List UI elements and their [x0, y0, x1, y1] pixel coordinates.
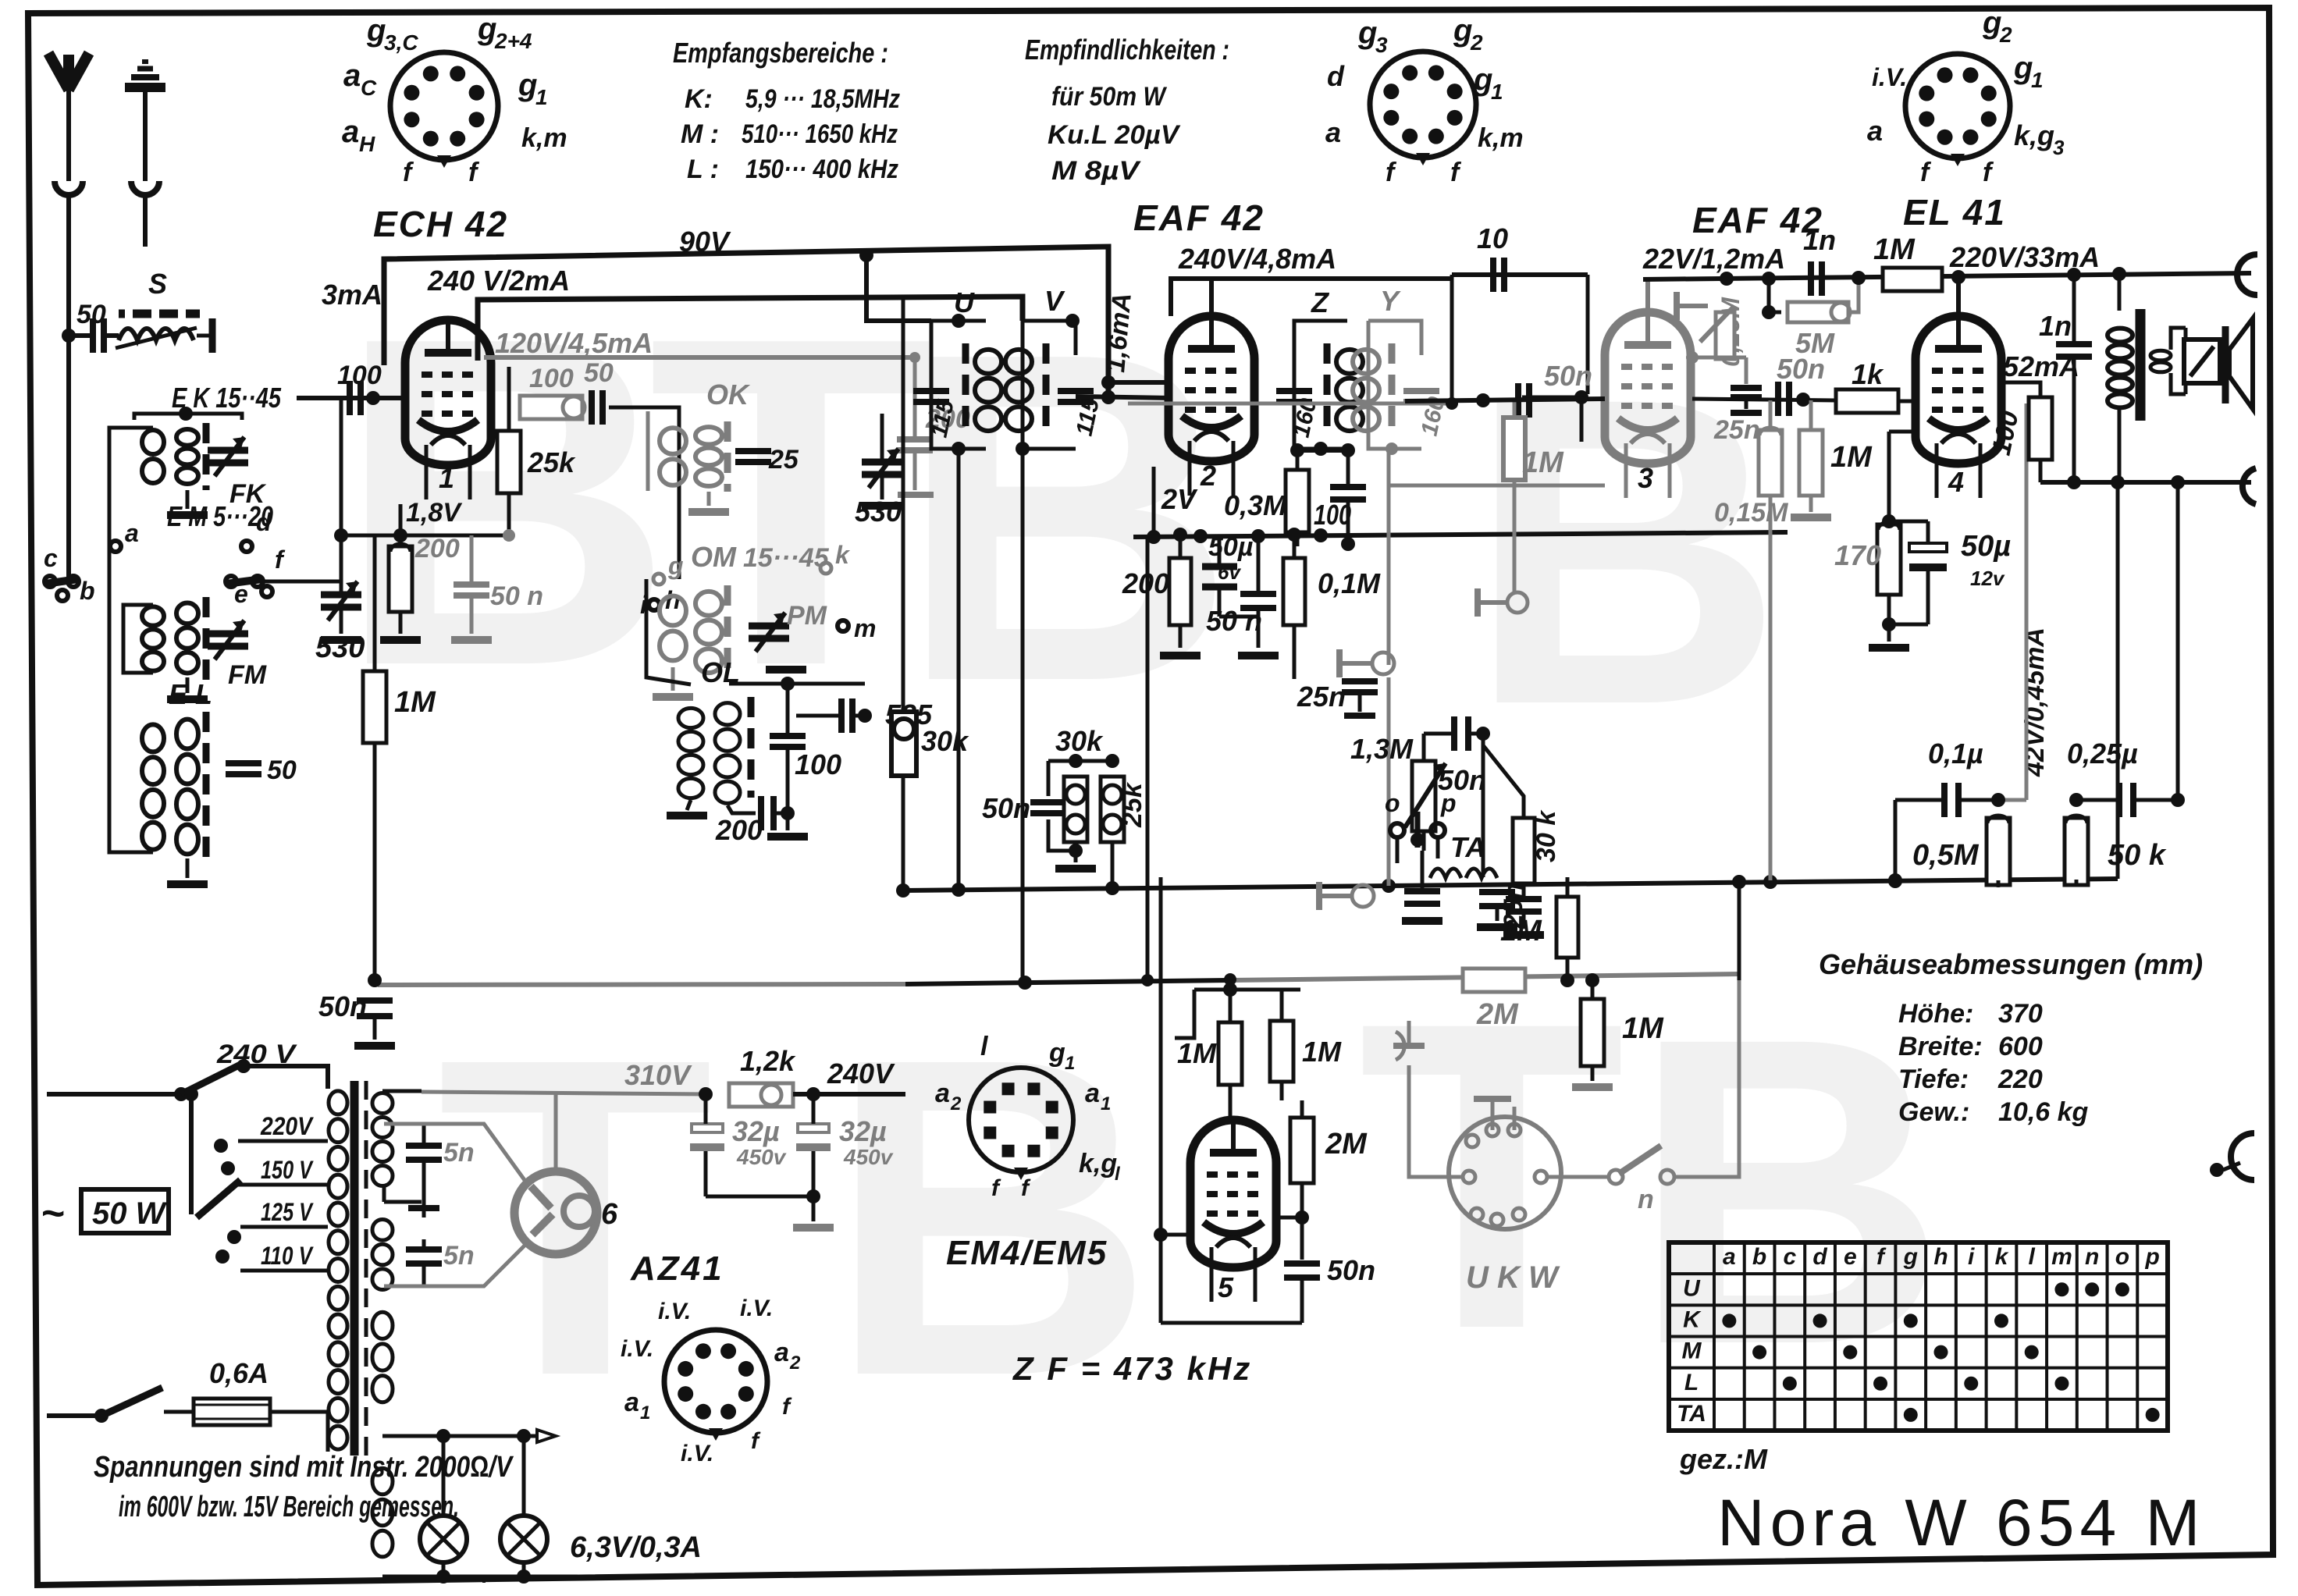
wire cathode EL: [1869, 432, 1916, 648]
wire 530 left: [321, 398, 361, 640]
label 50n near 5M: [1777, 353, 1825, 385]
svg-text:5n: 5n: [443, 1241, 475, 1271]
svg-text:h: h: [1933, 1244, 1948, 1270]
label ZF: [1012, 1350, 1252, 1387]
socket EAF42 pin labels: [1325, 13, 1524, 187]
lamp 2: [500, 1436, 547, 1576]
svg-text:c: c: [44, 544, 58, 572]
label EAF42 second: [1692, 200, 1823, 240]
svg-text:30 k: 30 k: [1531, 809, 1561, 862]
resistor 2M bridge: [1463, 969, 1525, 1031]
capacitor 50n cathode gray: [454, 535, 543, 611]
antenna: [48, 53, 89, 181]
svg-text:Gew.:: Gew.:: [1898, 1097, 1969, 1127]
coil box OM: [653, 585, 827, 697]
label 2V: [1161, 483, 1198, 515]
svg-text:d: d: [1812, 1244, 1827, 1270]
capacitor 100 Z: [1314, 487, 1366, 531]
switch n: [1547, 1146, 1674, 1214]
wire OL top: [729, 670, 865, 691]
svg-text:3,C: 3,C: [384, 30, 418, 55]
svg-text:Höhe:: Höhe:: [1898, 999, 1973, 1029]
label S: [148, 268, 167, 300]
svg-text:2: 2: [1999, 23, 2012, 47]
svg-text:100: 100: [529, 364, 574, 393]
gray AVC bus: [378, 973, 1739, 990]
socket EL41 pin labels: [1867, 5, 2065, 187]
wire gray Y down: [1389, 449, 1605, 665]
svg-text:o: o: [1385, 789, 1400, 817]
svg-text:a: a: [125, 519, 139, 547]
speaker transformer: [2108, 267, 2186, 482]
wire 0,25u riser: [2171, 475, 2185, 800]
label 50: [584, 358, 614, 388]
socket AZ41 pin labels: [621, 1296, 801, 1466]
svg-text:gez.:M: gez.:M: [1679, 1443, 1768, 1475]
gray trimmer TA1: [1339, 649, 1394, 677]
svg-text:Tiefe:: Tiefe:: [1898, 1065, 1969, 1094]
svg-text:3mA: 3mA: [322, 279, 382, 311]
variable capacitor 530 left: [315, 581, 365, 664]
svg-text:0,1M: 0,1M: [1318, 567, 1381, 599]
heater coil: [372, 1312, 393, 1557]
fuse 0,6A: [164, 1357, 328, 1425]
label 42V/0,45mA: [2020, 627, 2050, 777]
svg-text:50µ: 50µ: [1208, 532, 1253, 562]
svg-text:e: e: [234, 580, 248, 608]
capacitor 50: [592, 390, 603, 425]
svg-text:e: e: [1844, 1244, 1857, 1270]
svg-text:240V/4,8mA: 240V/4,8mA: [1178, 243, 1336, 275]
coil box EM: [142, 597, 267, 699]
svg-text:g: g: [1903, 1244, 1918, 1270]
label OM 15-45: [691, 541, 830, 573]
capacitor 1n snubber: [2039, 268, 2092, 482]
coil S: [116, 328, 197, 348]
wire o down: [1397, 839, 1438, 863]
socket ECH42 pin labels: [342, 12, 567, 187]
svg-text:H: H: [359, 132, 375, 156]
wire 120V gray rail: [484, 352, 920, 363]
label 310V: [624, 1059, 692, 1091]
resistor 1k: [1836, 358, 1917, 413]
label EM4/EM5: [946, 1234, 1108, 1272]
svg-text:g: g: [667, 552, 684, 580]
svg-text:p: p: [2144, 1244, 2159, 1270]
wire EAF2 anode: [1645, 279, 1650, 312]
text Tiefe: [1898, 1065, 2043, 1094]
label EM 5-20: [167, 500, 273, 532]
svg-text:g: g: [1982, 5, 2001, 40]
wire em top loop: [1175, 979, 1300, 1038]
svg-text:50n: 50n: [982, 792, 1030, 824]
output jack curl top: [2237, 254, 2257, 295]
svg-text:i.V.: i.V.: [740, 1296, 773, 1321]
svg-text:a: a: [774, 1338, 789, 1367]
resistor 1M em left: [1177, 990, 1242, 1124]
resistor 1M osc: [363, 671, 436, 743]
svg-text:Ku.L 20µV: Ku.L 20µV: [1048, 120, 1181, 150]
switch o p: [1385, 789, 1457, 848]
capacitor 0,25u: [2067, 738, 2185, 817]
svg-text:310V: 310V: [624, 1059, 692, 1091]
svg-text:200: 200: [414, 534, 460, 563]
svg-text:1n: 1n: [2039, 310, 2072, 342]
svg-text:k,m: k,m: [521, 123, 567, 153]
label 1 (ECH42 pin): [439, 462, 454, 494]
capacitor 50n grid: [1778, 382, 1789, 416]
svg-text:12v: 12v: [1970, 567, 2005, 590]
svg-text:3: 3: [1638, 462, 1653, 494]
switch S dashes: [119, 310, 200, 318]
label 90V: [679, 226, 731, 258]
transformer core: [354, 1081, 366, 1456]
resistor 1M coupling: [1503, 400, 1564, 592]
label 4 (EL41 pin): [1948, 466, 1964, 498]
small caps mid: [1402, 851, 1442, 921]
contact f: [261, 546, 286, 597]
wire 90V rail: [384, 247, 1108, 398]
svg-text:o: o: [2115, 1244, 2129, 1270]
svg-text:2+4: 2+4: [494, 29, 532, 53]
svg-text:530: 530: [855, 496, 902, 528]
svg-text:S: S: [148, 268, 167, 300]
svg-text:c: c: [1783, 1244, 1796, 1270]
label 220V: [260, 1112, 314, 1140]
switch row b: [44, 576, 95, 605]
wire 5n chain: [384, 1124, 424, 1286]
svg-text:100: 100: [337, 361, 382, 390]
resistor 30k 25k pair: [982, 725, 1147, 890]
svg-text:M: M: [1682, 1338, 1702, 1364]
IF can Y: [1353, 285, 1450, 455]
svg-text:0,3M: 0,3M: [1224, 489, 1287, 521]
svg-text:a: a: [624, 1388, 639, 1417]
text Gewicht: [1898, 1097, 2089, 1127]
svg-text:i.V.: i.V.: [658, 1299, 691, 1324]
wire anode rail EAF42: [1171, 279, 1452, 316]
label 52mA: [2003, 350, 2079, 382]
svg-text:1,3M: 1,3M: [1350, 733, 1414, 765]
wire S line: [62, 329, 119, 343]
svg-text:0,15M: 0,15M: [1714, 498, 1788, 528]
svg-text:1: 1: [1101, 1093, 1111, 1114]
variable capacitor 530 right: [855, 449, 902, 528]
output jack curl bottom: [2210, 1133, 2254, 1180]
svg-text:1M: 1M: [1522, 446, 1564, 479]
wire 32u bottom: [706, 1189, 834, 1228]
svg-text:1: 1: [535, 85, 548, 109]
wire grid ECH42: [297, 396, 406, 400]
tube V2 EAF42: [1169, 316, 1254, 496]
svg-text:Z F = 473 kHz: Z F = 473 kHz: [1012, 1350, 1252, 1387]
capacitor 100 OL: [770, 684, 841, 808]
label 110V: [261, 1242, 314, 1270]
svg-text:32µ: 32µ: [839, 1115, 887, 1147]
svg-text:Nora W 654 M: Nora W 654 M: [1717, 1486, 2206, 1559]
wire gray g2: [1692, 357, 1746, 384]
svg-text:50: 50: [584, 358, 614, 388]
svg-text:k,m: k,m: [1478, 123, 1524, 153]
svg-text:a: a: [1325, 116, 1341, 148]
resistor 50k: [2065, 793, 2167, 885]
svg-text:1M: 1M: [1177, 1037, 1217, 1069]
resistor 30k lamp: [891, 297, 969, 890]
resistor 100 screen: [1987, 397, 2052, 460]
svg-text:a: a: [1085, 1079, 1100, 1108]
svg-text:TA: TA: [1677, 1401, 1706, 1427]
text Hoehe: [1898, 999, 2043, 1029]
speaker: [2184, 318, 2253, 409]
wire 1,6mA vertical: [1101, 375, 1171, 389]
wire 2V rail: [1133, 528, 1788, 544]
wire 1M osc: [368, 535, 382, 987]
coil box OL: [646, 579, 756, 816]
capacitor 25n TA: [1297, 681, 1378, 716]
text Spannungen: [94, 1451, 514, 1523]
cathode resistor 170: [1834, 522, 1901, 595]
svg-text:k,g: k,g: [2014, 119, 2054, 151]
label AZ41: [630, 1249, 724, 1288]
wire grid EL41: [1522, 390, 1836, 442]
resistor 200 cathode: [389, 534, 460, 612]
wire cathode: [399, 504, 403, 634]
gray trimmer det: [1478, 588, 1528, 617]
resistor 2M em: [1290, 1100, 1368, 1225]
svg-text:1: 1: [2031, 68, 2044, 92]
contacts g h i k m: [640, 541, 876, 642]
wire n to bus: [1674, 980, 1739, 1177]
svg-text:E M 5···20: E M 5···20: [167, 500, 273, 532]
coil box EL: [142, 712, 297, 884]
svg-text:a: a: [1867, 115, 1883, 147]
wire 0,3M: [1290, 443, 1355, 546]
svg-text:0,6A: 0,6A: [209, 1357, 269, 1389]
capacitor 50n EAF: [1206, 535, 1279, 656]
wire em bottom: [1161, 1321, 1302, 1325]
label 3 (EAF42 pin): [1638, 462, 1653, 494]
capacitor 50mu6v: [1202, 532, 1258, 617]
socket UKW: [1449, 1117, 1561, 1229]
text Empfangsbereiche: [673, 37, 900, 184]
label EL41: [1903, 192, 2006, 233]
wire em right: [1284, 1217, 1375, 1323]
svg-text:M :: M :: [681, 119, 719, 149]
wire gray Y to EAF2: [1128, 397, 1458, 410]
svg-text:m: m: [854, 614, 876, 642]
svg-text:1M: 1M: [394, 686, 436, 719]
svg-text:U: U: [954, 286, 975, 318]
svg-text:g: g: [1473, 62, 1492, 97]
svg-text:0,25µ: 0,25µ: [2067, 738, 2138, 770]
socket EM labels: [935, 1032, 1121, 1201]
potentiometer 1,3M: [1405, 734, 1446, 851]
label 1,6mA: [1101, 292, 1137, 374]
resistor 5M: [1762, 279, 1859, 359]
coil box EK: [134, 407, 267, 515]
svg-text:Gehäuseabmessungen (mm): Gehäuseabmessungen (mm): [1819, 948, 2203, 980]
capacitor 25n chassis: [1713, 388, 1762, 445]
svg-text:g: g: [2013, 51, 2033, 85]
selector stem: [184, 1087, 198, 1214]
resistor 1M bridge2: [1572, 973, 1664, 1087]
wire output bottom bus: [2040, 475, 2251, 489]
trimmer 0,25M: [1677, 292, 1734, 359]
wire 525: [796, 709, 872, 723]
capacitor 200 OL bottom: [715, 796, 808, 846]
label OL: [701, 656, 740, 688]
svg-text:k,g: k,g: [1079, 1149, 1117, 1178]
wire 50n gray: [451, 596, 492, 640]
svg-text:5n: 5n: [443, 1138, 475, 1168]
label 3mA: [322, 279, 382, 311]
earth plug cup: [131, 181, 159, 247]
gray trimmer TA3: [1319, 882, 1374, 910]
svg-text:g: g: [1357, 16, 1377, 50]
svg-text:50n: 50n: [1544, 360, 1592, 392]
wire 90V drop to U: [866, 255, 931, 321]
resistor 0,5M: [1912, 800, 2010, 885]
svg-text:n: n: [1638, 1185, 1654, 1214]
wire screen bot: [2039, 460, 2043, 482]
capacitor 50n bottom: [354, 980, 395, 1046]
wire to EAF42 grid: [1076, 390, 1171, 404]
svg-text:1,8V: 1,8V: [406, 498, 463, 528]
resistor 30k TA: [1483, 745, 1561, 935]
label 150V: [261, 1156, 314, 1184]
svg-text:l: l: [2029, 1244, 2036, 1270]
wire antenna to switch: [66, 336, 71, 581]
svg-text:370: 370: [1998, 999, 2043, 1029]
wire Z bottom: [1341, 450, 1355, 551]
secondary mid tap: [384, 1186, 422, 1202]
svg-text:L :: L :: [687, 155, 719, 184]
mid tap T: [408, 1194, 439, 1217]
svg-text:4: 4: [1948, 466, 1964, 498]
junction 1,8V: [334, 528, 515, 542]
svg-text:k: k: [1995, 1244, 2009, 1270]
svg-text:30k: 30k: [1055, 725, 1104, 757]
wire 530 right: [862, 414, 902, 506]
IF can U: [913, 286, 1001, 456]
svg-text:10,6 kg: 10,6 kg: [1998, 1097, 2089, 1127]
svg-text:1: 1: [439, 462, 454, 494]
label 22V/1,2mA: [1642, 243, 1785, 275]
title Nora W 654 M: [1717, 1486, 2206, 1559]
text Breite: [1898, 1032, 2043, 1061]
wire 125V tap: [240, 1225, 328, 1229]
svg-text:EAF 42: EAF 42: [1133, 197, 1265, 238]
antenna plug cup: [55, 181, 83, 228]
label ECH42: [373, 204, 508, 244]
wire gray TA down: [1387, 677, 1391, 886]
resistor 25k: [497, 431, 576, 493]
wire em left: [1154, 877, 1194, 1323]
label UKW: [1466, 1260, 1560, 1295]
svg-text:5,9 ··· 18,5MHz: 5,9 ··· 18,5MHz: [745, 84, 900, 114]
wire heater bottom: [382, 1569, 578, 1584]
svg-text:für 50m W: für 50m W: [1051, 82, 1168, 112]
capacitor 1n coupling: [1803, 224, 1836, 296]
svg-text:200: 200: [715, 814, 763, 846]
wire 42V vertical: [1998, 403, 2026, 800]
svg-text:1k: 1k: [1852, 358, 1884, 390]
svg-text:50: 50: [267, 755, 297, 785]
svg-text:25k: 25k: [1118, 781, 1147, 828]
mains switch bottom: [47, 1388, 162, 1423]
resistor 200 EAF: [1122, 528, 1201, 656]
svg-text:b: b: [80, 577, 95, 605]
UKW antenna stub: [1474, 1099, 1514, 1130]
svg-text:120V/4,5mA: 120V/4,5mA: [495, 327, 653, 359]
svg-text:3: 3: [1375, 33, 1388, 57]
label 50 (ant cap): [76, 300, 106, 329]
earth terminal: [125, 62, 165, 181]
svg-text:125 V: 125 V: [261, 1198, 314, 1226]
resistor 0,3M: [1224, 470, 1309, 532]
svg-text:g: g: [477, 12, 496, 46]
label EK 15-45: [172, 382, 282, 414]
text Empfindlichkeiten: [1025, 34, 1229, 186]
svg-text:10: 10: [1477, 222, 1508, 254]
svg-text:25n: 25n: [1297, 681, 1346, 713]
svg-text:im 600V bzw. 15V Bereich g: im 600V bzw. 15V Bereich gemessen.: [119, 1491, 459, 1523]
label 50n gray: [1544, 360, 1592, 392]
svg-text:U K W: U K W: [1466, 1260, 1560, 1295]
capacitor 525: [841, 698, 933, 733]
label 50n bottom: [318, 990, 367, 1022]
svg-text:E L: E L: [169, 678, 212, 710]
text Gehaeuseabmessungen: [1819, 948, 2203, 980]
svg-text:240V: 240V: [827, 1057, 895, 1089]
capacitor 0,1u: [1888, 738, 2005, 888]
wire em grid: [1275, 1216, 1302, 1220]
svg-text:C: C: [361, 76, 377, 100]
wire 240V tap: [244, 1066, 328, 1089]
svg-text:EM4/EM5: EM4/EM5: [946, 1234, 1108, 1272]
capacitor 10 line: [1452, 222, 1588, 403]
svg-text:i: i: [1968, 1244, 1975, 1270]
svg-text:50n: 50n: [1327, 1254, 1375, 1286]
capacitor 5n upper: [406, 1124, 475, 1194]
label 0,25M: [1716, 297, 1745, 367]
svg-text:PM: PM: [787, 601, 827, 631]
svg-text:g: g: [1453, 13, 1472, 48]
svg-text:50µ: 50µ: [1961, 530, 2011, 563]
svg-text:170: 170: [1834, 539, 1881, 571]
svg-text:1M: 1M: [1500, 915, 1542, 947]
label 125V: [261, 1198, 314, 1226]
capacitor 50mu 12v: [1889, 521, 2011, 624]
svg-text:g: g: [518, 68, 537, 102]
tube socket EAF42: [1370, 52, 1476, 165]
resistor 1M gray: [1791, 400, 1873, 517]
svg-text:150··· 400 kHz: 150··· 400 kHz: [745, 155, 898, 184]
svg-text:1: 1: [640, 1402, 650, 1424]
svg-text:B: B: [898, 256, 1236, 779]
svg-text:OK: OK: [706, 379, 751, 411]
wire U down: [957, 449, 961, 890]
svg-text:2: 2: [1470, 30, 1483, 55]
terminal S: [197, 318, 212, 353]
wire 22V rail: [1643, 270, 2251, 286]
label 220V/33mA: [1949, 241, 2100, 273]
wire 240V/2mA rail: [478, 297, 1023, 361]
wire k line: [1405, 351, 1699, 401]
wire 220V tap: [238, 1139, 328, 1143]
svg-text:i.V.: i.V.: [621, 1336, 653, 1362]
junction grid: [366, 391, 380, 405]
